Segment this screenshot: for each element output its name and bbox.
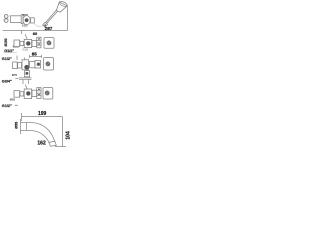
svg-text:Ø70: Ø70	[12, 73, 18, 77]
side box	[43, 88, 53, 99]
svg-text:Ø35: Ø35	[23, 13, 29, 17]
drawing	[14, 91, 20, 98]
svg-text:162: 162	[37, 140, 46, 146]
drawing	[13, 62, 18, 69]
svg-text:Ø150: Ø150	[4, 38, 8, 46]
side box with hatched circle	[44, 38, 54, 49]
spout curve	[33, 123, 55, 142]
svg-text:199: 199	[38, 111, 47, 117]
dimension 287	[67, 6, 69, 31]
wall tube rect	[10, 16, 21, 23]
svg-text:G1/2": G1/2"	[2, 104, 12, 108]
svg-text:G1/2: G1/2	[22, 24, 28, 28]
svg-text:G1/2": G1/2"	[2, 57, 12, 61]
hose stub	[34, 23, 43, 26]
spout tip	[49, 141, 56, 146]
svg-text:104: 104	[65, 131, 71, 140]
drawing	[14, 40, 20, 47]
side box	[44, 58, 54, 70]
svg-text:Ø55: Ø55	[14, 122, 18, 129]
svg-text:G1/2: G1/2	[23, 49, 29, 52]
hand shower handle	[44, 10, 58, 25]
svg-text:G1/2": G1/2"	[4, 49, 14, 53]
svg-text:287: 287	[45, 26, 53, 31]
svg-text:80: 80	[33, 31, 38, 36]
svg-text:G3/4": G3/4"	[2, 80, 12, 84]
hand shower head cone	[56, 2, 67, 12]
svg-text:85: 85	[32, 51, 38, 56]
svg-text:Ø55: Ø55	[10, 97, 16, 101]
left fitting: stacked union nuts	[4, 15, 8, 19]
wall + shank	[20, 119, 22, 134]
